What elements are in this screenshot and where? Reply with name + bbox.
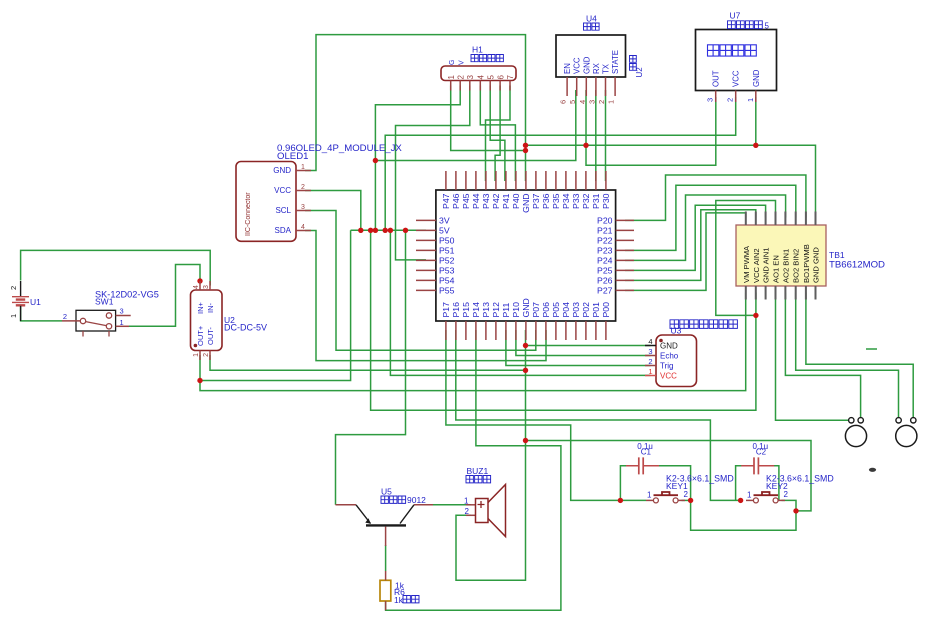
- junction bus emitter tap: [403, 228, 408, 233]
- svg-text:P11: P11: [501, 303, 511, 318]
- svg-text:P25: P25: [597, 265, 613, 275]
- svg-text:P45: P45: [461, 193, 471, 209]
- svg-text:P13: P13: [481, 302, 491, 318]
- junction U7 GND: [753, 143, 758, 148]
- wire U4 VCC to 5V feed: [375, 90, 575, 161]
- svg-text:G: G: [449, 60, 456, 65]
- junction GND rail at MCU GND: [523, 143, 528, 148]
- switch SW1 pin 1 stub: [116, 325, 129, 327]
- svg-text:P53: P53: [439, 265, 455, 275]
- U2 pin1 marker dot: [194, 344, 198, 348]
- svg-text:GND: GND: [521, 298, 531, 317]
- wire 5V tap to transistor emitter: [336, 230, 406, 505]
- switch SW1 pin 3 stub: [116, 315, 131, 317]
- wire H1 pin1 to GND node: [451, 86, 526, 151]
- svg-text:Trig: Trig: [660, 362, 673, 371]
- svg-text:2: 2: [465, 507, 470, 516]
- buzzer BUZ1 speaker symbol: [476, 485, 506, 537]
- svg-text:OUT: OUT: [712, 70, 721, 87]
- pushbutton KEY2 actuator: [754, 492, 779, 495]
- wire TB6612 BO1 to right motor terminal 2: [806, 293, 913, 419]
- junction H1 GND at MCU GND: [523, 148, 528, 153]
- svg-text:GND: GND: [273, 166, 291, 175]
- OLED1 pin 4 stub: [296, 230, 311, 232]
- svg-text:P36: P36: [541, 193, 551, 209]
- MCU left pin names: [439, 215, 455, 295]
- svg-text:P41: P41: [501, 193, 511, 209]
- capacitor C1 plates: [639, 457, 643, 474]
- U3 pin1 marker dot: [659, 339, 663, 343]
- H1 pin 3 stub: [469, 81, 471, 91]
- wire OLED VCC to 5V bus: [305, 191, 361, 231]
- svg-text:VM PWMA: VM PWMA: [742, 245, 751, 283]
- svg-text:Echo: Echo: [660, 352, 679, 361]
- U4 pin 5 stub: [576, 77, 578, 96]
- U4 pin 2 stub: [605, 77, 607, 96]
- U4 side label lanya U2 rotated: [630, 56, 637, 71]
- svg-text:1: 1: [301, 164, 305, 171]
- wire GND branch to keys common: [526, 441, 812, 511]
- svg-text:STATE: STATE: [611, 50, 620, 74]
- svg-text:P42: P42: [491, 193, 501, 209]
- battery U1 bottom lead: [20, 306, 22, 321]
- right motor terminal 1: [896, 418, 901, 423]
- svg-text:P01: P01: [591, 302, 601, 318]
- resistor R6 top lead: [385, 571, 387, 580]
- svg-text:1: 1: [9, 314, 18, 318]
- svg-text:V: V: [458, 60, 465, 65]
- svg-text:P44: P44: [471, 193, 481, 209]
- svg-text:GND: GND: [582, 56, 591, 74]
- svg-text:P34: P34: [561, 193, 571, 209]
- svg-text:3: 3: [301, 204, 305, 211]
- U4 part name lanya: [584, 23, 600, 30]
- U2 pin 2 stub OUT-: [209, 351, 211, 361]
- U7 inner label cesumokuai: [708, 45, 757, 56]
- svg-text:GND: GND: [521, 194, 531, 213]
- svg-text:IN+: IN+: [196, 302, 205, 315]
- wire DC-DC OUT+ riser to 5V bus: [200, 230, 351, 380]
- transistor U5 collector stub: [414, 504, 433, 506]
- junction MCU GND OUT-: [523, 368, 528, 373]
- buzzer BUZ1 pin 2 stub: [466, 514, 476, 516]
- svg-text:P00: P00: [601, 302, 611, 318]
- H1 pin 2 stub: [459, 81, 461, 91]
- svg-text:GND: GND: [752, 69, 761, 87]
- svg-text:P07: P07: [531, 302, 541, 318]
- wire KEY2 pin2 to common: [782, 500, 797, 511]
- OLED connector OLED1 body: [236, 162, 296, 242]
- wire KEY1 pin2 to junction: [682, 499, 691, 501]
- svg-text:GND: GND: [660, 342, 678, 351]
- svg-text:P30: P30: [601, 193, 611, 209]
- wire C1 left lead drop: [620, 466, 627, 501]
- svg-text:U2: U2: [635, 67, 644, 78]
- U3 pin 4 stub: [645, 345, 656, 347]
- svg-text:C2: C2: [756, 448, 767, 457]
- wire H1 pin4 to MCU P40: [480, 86, 515, 182]
- svg-text:3V: 3V: [439, 215, 450, 225]
- wire TB6612 VCC to EN pullup: [716, 201, 776, 316]
- svg-text:1k: 1k: [394, 595, 404, 605]
- svg-text:3: 3: [587, 100, 596, 104]
- wire GND rail to U4 U7 and TB6612 GND pin: [526, 145, 816, 217]
- svg-text:P03: P03: [571, 302, 581, 318]
- svg-text:2: 2: [203, 353, 210, 357]
- svg-text:P50: P50: [439, 235, 455, 245]
- U4 pin 1 stub: [614, 77, 616, 96]
- wire MCU P16 to KEY2 pin1: [456, 330, 741, 500]
- svg-text:1: 1: [464, 496, 469, 505]
- svg-text:4: 4: [193, 285, 200, 289]
- U7 part name cesumokuai5: [728, 21, 763, 29]
- svg-text:2: 2: [684, 490, 689, 499]
- transistor U5 emitter stub: [336, 504, 357, 506]
- wire transistor base to resistor top: [385, 545, 387, 571]
- wire MCU P26 to TB6612 AIN2: [625, 210, 756, 281]
- wire 5V bus at MCU 5V pin: [351, 229, 426, 231]
- wire H1 pin7 to MCU P43: [486, 86, 511, 182]
- wire TB6612 AO2 to left motor terminal: [785, 293, 860, 419]
- svg-text:U1: U1: [30, 297, 41, 307]
- OLED1 pin 1 stub: [296, 170, 311, 172]
- svg-text:VCC: VCC: [732, 70, 741, 87]
- transistor U5 emitter arrow: [365, 518, 371, 524]
- U4 pin 3 stub: [595, 77, 597, 96]
- svg-text:P43: P43: [481, 193, 491, 209]
- svg-text:GND AIN1: GND AIN1: [762, 248, 771, 283]
- svg-text:DC-DC-5V: DC-DC-5V: [224, 323, 267, 333]
- svg-text:P26: P26: [597, 275, 613, 285]
- svg-text:H1: H1: [472, 45, 483, 55]
- junction TB VCC EN link: [753, 313, 758, 318]
- svg-text:5V: 5V: [439, 225, 450, 235]
- junction OUT+ 5V split: [197, 378, 202, 383]
- svg-text:P32: P32: [581, 193, 591, 209]
- wire TB6612 AO1 to left motor terminal 1: [776, 293, 850, 421]
- wire U7 VCC to 5V bus: [385, 97, 736, 230]
- svg-text:5: 5: [568, 100, 577, 104]
- junction U4 GND: [583, 143, 588, 148]
- svg-text:P12: P12: [491, 302, 501, 318]
- right motor terminal 2: [911, 418, 916, 423]
- capacitor C2 plates: [754, 457, 758, 474]
- svg-text:P20: P20: [597, 215, 613, 225]
- MCU top pin stubs: [446, 171, 606, 190]
- svg-text:3: 3: [120, 307, 124, 316]
- svg-text:2: 2: [597, 100, 606, 104]
- svg-text:VCC: VCC: [660, 372, 677, 381]
- TB1 top pin stubs: [746, 212, 816, 226]
- wire switch pin1 to DC-DC IN+: [129, 265, 200, 327]
- junction bus H1 V: [373, 228, 378, 233]
- DC-DC module U2 body: [191, 290, 223, 351]
- svg-text:P17: P17: [441, 302, 451, 318]
- resistor R6 bottom lead: [385, 601, 387, 610]
- H1 part name wuluxunji: [471, 55, 503, 62]
- svg-text:P55: P55: [439, 285, 455, 295]
- svg-text:BO2 BIN2: BO2 BIN2: [792, 249, 801, 283]
- wire ultrasonic Trig to MCU P11: [506, 330, 651, 366]
- wire TB6612 BO2 to right motor terminal 1: [796, 293, 899, 419]
- svg-text:P10: P10: [511, 302, 521, 318]
- wire MCU P24 to TB6612 BIN1: [625, 195, 786, 260]
- svg-text:P52: P52: [439, 255, 455, 265]
- svg-text:SCL: SCL: [275, 206, 291, 215]
- svg-text:KEY1: KEY1: [666, 481, 688, 491]
- svg-text:P37: P37: [531, 193, 541, 209]
- U7 pin 1 stub: [755, 91, 757, 103]
- right motor body: [896, 425, 917, 446]
- wire OLED SCL to MCU P07: [305, 211, 536, 351]
- KEY2 pin 2 stub: [778, 499, 785, 501]
- svg-text:3: 3: [706, 98, 715, 102]
- svg-text:1: 1: [193, 353, 200, 357]
- transistor U5 body: [356, 505, 414, 526]
- svg-text:P06: P06: [541, 302, 551, 318]
- svg-text:TB1: TB1: [829, 250, 845, 260]
- wire MCU P25 to TB6612 AIN1: [625, 205, 766, 270]
- H1 pin 6 stub: [499, 81, 501, 91]
- TB1 pin names: [742, 244, 821, 283]
- KEY1 pin 1 stub: [646, 499, 653, 501]
- wire MCU P17 to KEY1 pin1: [446, 330, 646, 500]
- svg-text:P40: P40: [511, 193, 521, 209]
- wire DC-DC OUT- GND rail to MCU GND: [210, 355, 526, 370]
- svg-text:P47: P47: [441, 193, 451, 209]
- H1 pin 5 stub: [489, 81, 491, 91]
- svg-text:U7: U7: [730, 11, 741, 21]
- ultrasonic module U3 body: [656, 335, 697, 387]
- svg-text:P31: P31: [591, 193, 601, 209]
- svg-text:1: 1: [647, 491, 652, 500]
- wire DC-DC OUT+ 5V rail to TB6612 VM: [200, 293, 746, 391]
- svg-text:1: 1: [648, 367, 652, 376]
- battery U1 plates: [12, 297, 29, 303]
- wire ultrasonic Echo to MCU P10: [516, 330, 651, 356]
- junction DC-DC IN+: [197, 278, 202, 283]
- junction MCU GND keys branch: [523, 438, 528, 443]
- svg-text:P16: P16: [451, 302, 461, 318]
- svg-text:6: 6: [559, 100, 568, 104]
- U5 part name sanjiguan9012: [381, 496, 406, 503]
- MCU right pin names: [597, 215, 613, 295]
- U7 pin 2 stub: [735, 91, 737, 103]
- svg-text:3: 3: [466, 75, 475, 80]
- svg-text:P22: P22: [597, 235, 613, 245]
- junction bus tap TB VCC: [368, 228, 373, 233]
- wire MCU P14 to resistor R6: [386, 330, 561, 610]
- bluetooth module U4 body: [556, 35, 626, 77]
- left motor terminal 1: [849, 418, 854, 423]
- wire OLED SDA to MCU P06: [305, 231, 546, 361]
- svg-text:1: 1: [746, 98, 755, 102]
- wire C2 right lead to KEY2 pin2: [773, 466, 779, 501]
- wire H1 pin3 to MCU P52: [396, 86, 470, 260]
- junction bus U7 VCC: [383, 228, 388, 233]
- svg-text:P04: P04: [561, 302, 571, 318]
- svg-text:OUT-: OUT-: [206, 327, 215, 345]
- U3 part name chaoshengbo: [670, 320, 737, 329]
- transistor U5 base stub: [385, 527, 387, 546]
- wire MCU P27 to TB6612 PWMA: [625, 213, 746, 291]
- junction KEY1 pin2 C1: [688, 498, 693, 503]
- svg-text:P14: P14: [471, 302, 481, 318]
- svg-text:2: 2: [784, 490, 789, 499]
- svg-text:9012: 9012: [407, 495, 426, 505]
- svg-text:5: 5: [486, 75, 495, 80]
- OLED1 pin 2 stub: [296, 190, 311, 192]
- MCU left pin stubs: [416, 220, 436, 290]
- TB1 bottom pin stubs: [746, 286, 816, 300]
- svg-text:1: 1: [607, 100, 616, 104]
- svg-text:RX: RX: [592, 62, 601, 74]
- U3 pin 2 stub: [645, 365, 656, 367]
- switch SW1 bottom legs: [83, 331, 109, 337]
- wire C2 left lead drop: [736, 466, 742, 501]
- wire stub near motors: [866, 348, 877, 350]
- svg-text:2: 2: [456, 75, 465, 80]
- wire battery plus to DC-DC IN-: [21, 250, 211, 285]
- svg-text:VCC: VCC: [573, 57, 582, 74]
- svg-text:4: 4: [477, 75, 486, 80]
- U7 pin 3 stub: [715, 91, 717, 103]
- wire OLED GND to MCU top GND via top route: [305, 35, 526, 181]
- battery U1 top lead: [20, 281, 22, 296]
- svg-text:C1: C1: [641, 448, 652, 457]
- svg-text:IN-: IN-: [206, 303, 215, 314]
- svg-text:U3: U3: [671, 325, 682, 335]
- svg-text:P35: P35: [551, 193, 561, 209]
- U3 pin 1 stub: [645, 375, 656, 377]
- svg-text:AO1 EN: AO1 EN: [772, 255, 781, 283]
- wire keys common loop: [691, 500, 796, 530]
- svg-text:OUT+: OUT+: [196, 325, 205, 346]
- svg-text:IIC-Connector: IIC-Connector: [245, 192, 252, 236]
- MCU right pin stubs: [616, 220, 634, 290]
- wire U7 GND to GND rail: [755, 97, 757, 145]
- wire MCU P20 to TB6612 PWMB: [625, 175, 806, 220]
- svg-text:4: 4: [578, 100, 587, 104]
- svg-text:P54: P54: [439, 275, 455, 285]
- svg-text:1: 1: [120, 318, 124, 327]
- wire ultrasonic GND to MCU GND node: [526, 345, 651, 347]
- KEY1 pin 2 stub: [678, 499, 685, 501]
- junction bus ultrasonic VCC: [388, 228, 393, 233]
- svg-text:U5: U5: [381, 487, 392, 497]
- svg-text:P05: P05: [551, 302, 561, 318]
- svg-text:5: 5: [765, 21, 770, 30]
- junction keys common GND: [793, 508, 798, 513]
- svg-text:3: 3: [203, 285, 210, 289]
- MCU bottom pin stubs: [446, 321, 606, 340]
- svg-text:2: 2: [726, 98, 735, 102]
- U2 pin 1 stub OUT+: [199, 351, 201, 361]
- line-tracking header H1 body: [441, 66, 516, 81]
- svg-text:VCC: VCC: [274, 186, 291, 195]
- left motor body: [845, 425, 866, 446]
- svg-text:4: 4: [301, 224, 305, 231]
- switch SW1 pin 2 stub: [62, 320, 80, 322]
- svg-text:SDA: SDA: [275, 226, 292, 235]
- svg-text:P51: P51: [439, 245, 455, 255]
- svg-text:BO1PWMB: BO1PWMB: [802, 244, 811, 283]
- wire U4 GND down and U7 OUT link: [586, 90, 716, 165]
- BUZ1 part name fengmingqi: [466, 476, 491, 483]
- svg-text:KEY2: KEY2: [766, 481, 788, 491]
- resistor R6 body: [380, 580, 391, 601]
- svg-text:1: 1: [747, 491, 752, 500]
- svg-text:2: 2: [648, 357, 652, 366]
- wire MCU GND down to buzzer pin2: [456, 330, 526, 580]
- wire H1 pin2 V to 5V bus: [375, 86, 460, 231]
- wire MCU P23 to TB6612 BIN2: [625, 185, 796, 250]
- MCU U6 body: [436, 190, 616, 321]
- U2 pin 4 stub IN+: [199, 281, 201, 290]
- buzzer BUZ1 plus sign: [478, 501, 485, 508]
- svg-text:3: 3: [648, 347, 652, 356]
- svg-text:2: 2: [9, 286, 18, 290]
- capacitor C1 leads: [626, 465, 659, 467]
- MCU top pin names: [441, 193, 611, 212]
- H1 pin 1 stub: [450, 81, 452, 91]
- U4 pin 4 stub: [585, 77, 587, 96]
- svg-text:TX: TX: [602, 63, 611, 74]
- OLED1 pin 3 stub: [296, 210, 311, 212]
- svg-text:P02: P02: [581, 302, 591, 318]
- svg-text:P21: P21: [597, 225, 613, 235]
- wire 5V tap to ultrasonic VCC: [390, 230, 650, 375]
- svg-text:OLED1: OLED1: [277, 151, 308, 162]
- wire H1 pin6 to MCU P42: [495, 86, 500, 182]
- svg-text:P23: P23: [597, 245, 613, 255]
- svg-text:2: 2: [301, 184, 305, 191]
- U3 pin 3 stub: [645, 355, 656, 357]
- svg-text:6: 6: [496, 75, 505, 80]
- switch SW1 contacts and lever: [80, 313, 111, 329]
- pushbutton KEY1 actuator: [654, 492, 679, 495]
- junction KEY2 pin1 C2: [738, 498, 743, 503]
- svg-text:P27: P27: [597, 285, 613, 295]
- wire U4 TX to MCU P30: [605, 90, 607, 181]
- svg-text:VCC AIN2: VCC AIN2: [752, 248, 761, 283]
- speed module U7 body: [696, 30, 777, 91]
- wire 5V tap to TB6612 VCC: [371, 230, 756, 410]
- junction KEY1 pin1 C1: [618, 498, 623, 503]
- svg-text:AO2 BIN1: AO2 BIN1: [781, 249, 790, 283]
- U4 pin 6 stub: [566, 77, 568, 96]
- svg-text:TB6612MOD: TB6612MOD: [829, 260, 885, 271]
- junction 5V feed at x375: [373, 158, 378, 163]
- wire C1 right lead to KEY1 pin2 node: [658, 466, 691, 501]
- buzzer BUZ1 pin 1 stub: [466, 504, 476, 506]
- U2 pin 3 stub IN-: [209, 281, 211, 290]
- H1 pin 4 stub: [479, 81, 481, 91]
- wire battery minus to switch pin2: [21, 306, 62, 321]
- MCU bottom pin names: [441, 298, 611, 317]
- svg-text:EN: EN: [563, 63, 572, 74]
- wire U4 RX to MCU P31: [595, 90, 597, 181]
- left motor terminal 2: [858, 418, 863, 423]
- wire transistor collector to buzzer pin1: [433, 504, 471, 506]
- capacitor C2 leads: [741, 465, 774, 467]
- svg-text:7: 7: [506, 75, 515, 80]
- H1 pin 7 stub: [509, 81, 511, 91]
- pushbutton KEY1 contacts: [653, 498, 678, 503]
- svg-text:1: 1: [447, 75, 456, 80]
- switch SW1 body: [76, 310, 116, 331]
- KEY2 pin 1 stub: [746, 499, 753, 501]
